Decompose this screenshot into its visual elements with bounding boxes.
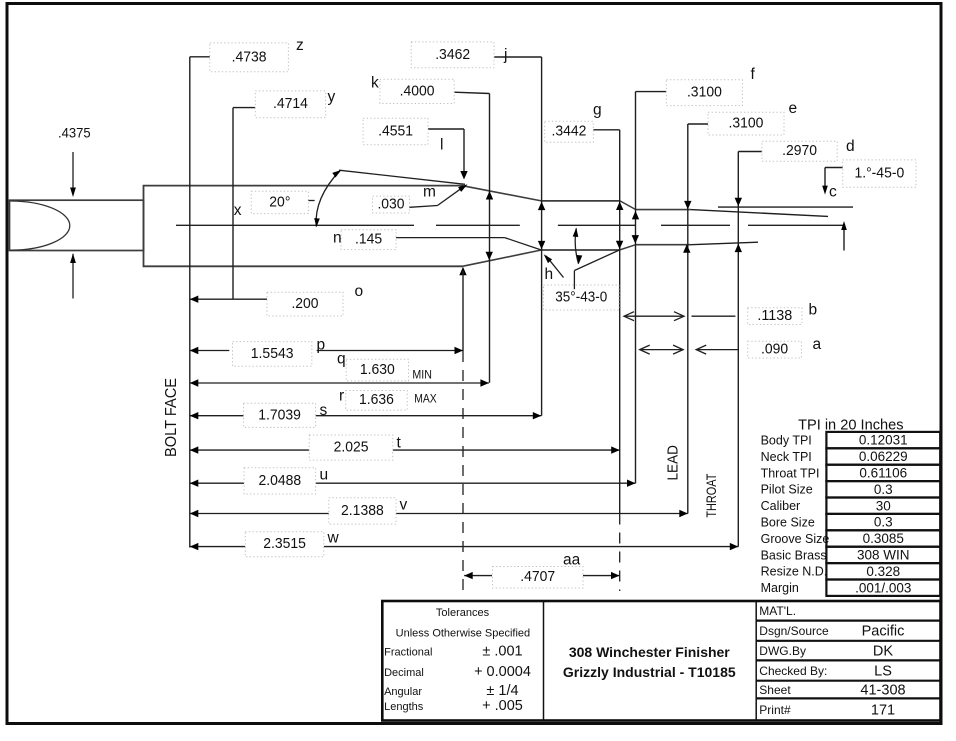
svg-text:± .001: ± .001 [482, 644, 522, 660]
svg-text:Caliber: Caliber [761, 499, 801, 513]
svg-text:Pacific: Pacific [862, 624, 905, 640]
svg-text:Body TPI: Body TPI [761, 434, 812, 448]
svg-text:171: 171 [871, 702, 895, 718]
svg-text:LS: LS [874, 664, 892, 680]
svg-text:x: x [234, 202, 242, 219]
svg-text:.200: .200 [291, 295, 318, 312]
svg-text:DWG.By: DWG.By [759, 644, 806, 658]
svg-text:a: a [813, 336, 822, 353]
svg-text:y: y [328, 89, 336, 106]
svg-text:35°-43-0: 35°-43-0 [555, 289, 607, 305]
svg-text:h: h [545, 266, 554, 283]
svg-text:Decimal: Decimal [384, 667, 424, 679]
svg-text:z: z [296, 37, 304, 54]
svg-text:2.1388: 2.1388 [341, 502, 384, 519]
svg-text:0.3085: 0.3085 [863, 531, 904, 546]
svg-text:MAX: MAX [414, 392, 437, 406]
svg-text:308 Winchester Finisher: 308 Winchester Finisher [569, 644, 730, 660]
svg-text:MIN: MIN [412, 368, 432, 382]
svg-text:t: t [397, 435, 402, 452]
svg-text:0.06229: 0.06229 [859, 449, 908, 464]
svg-text:1.5543: 1.5543 [251, 345, 294, 362]
svg-text:Unless Otherwise Specified: Unless Otherwise Specified [396, 628, 531, 640]
svg-text:0.61106: 0.61106 [859, 466, 907, 481]
svg-text:+ 0.0004: + 0.0004 [474, 664, 531, 680]
svg-text:w: w [327, 530, 340, 547]
svg-text:Bore Size: Bore Size [761, 516, 815, 530]
svg-text:u: u [320, 467, 329, 484]
svg-text:r: r [339, 388, 344, 405]
svg-text:Fractional: Fractional [384, 647, 432, 659]
svg-text:Checked By:: Checked By: [759, 664, 827, 678]
svg-text:.3100: .3100 [729, 115, 764, 132]
svg-text:Grizzly Industrial - T10185: Grizzly Industrial - T10185 [563, 664, 736, 680]
svg-text:l: l [440, 137, 443, 154]
svg-text:Basic Brass: Basic Brass [761, 548, 827, 562]
svg-text:Resize N.D.: Resize N.D. [761, 565, 828, 579]
svg-text:308 WIN: 308 WIN [857, 548, 910, 563]
svg-text:Margin: Margin [761, 581, 799, 595]
svg-text:m: m [423, 184, 436, 201]
svg-text:± 1/4: ± 1/4 [486, 683, 518, 699]
svg-text:.4707: .4707 [520, 568, 555, 585]
svg-text:.1138: .1138 [757, 307, 792, 324]
svg-text:c: c [829, 184, 837, 201]
svg-text:Sheet: Sheet [759, 683, 791, 697]
svg-text:0.3: 0.3 [874, 482, 893, 497]
svg-text:1.630: 1.630 [360, 361, 395, 378]
svg-text:g: g [593, 102, 602, 119]
svg-text:0.12031: 0.12031 [859, 433, 908, 448]
svg-text:Tolerances: Tolerances [436, 607, 490, 619]
svg-text:Groove Size: Groove Size [761, 532, 830, 546]
svg-text:o: o [355, 283, 364, 300]
svg-text:.001/.003: .001/.003 [855, 580, 911, 595]
svg-text:41-308: 41-308 [860, 683, 905, 699]
svg-text:2.0488: 2.0488 [259, 472, 302, 489]
svg-text:.3442: .3442 [552, 123, 587, 140]
svg-text:.3100: .3100 [687, 84, 722, 101]
svg-text:20°: 20° [269, 193, 290, 210]
svg-text:e: e [789, 100, 798, 117]
svg-text:aa: aa [563, 552, 581, 569]
svg-text:q: q [337, 351, 346, 368]
svg-text:d: d [846, 138, 855, 155]
svg-text:THROAT: THROAT [703, 473, 719, 517]
svg-text:Throat TPI: Throat TPI [761, 466, 820, 480]
svg-text:Lengths: Lengths [384, 701, 424, 713]
svg-text:1.7039: 1.7039 [258, 406, 301, 423]
svg-text:f: f [751, 66, 756, 83]
svg-text:1.636: 1.636 [359, 391, 394, 408]
svg-text:k: k [371, 75, 379, 92]
svg-text:.090: .090 [761, 341, 788, 358]
svg-text:30: 30 [876, 498, 891, 513]
svg-text:1.°-45-0: 1.°-45-0 [854, 164, 904, 181]
svg-text:0.328: 0.328 [866, 564, 900, 579]
svg-text:.4551: .4551 [378, 122, 413, 139]
svg-text:DK: DK [873, 644, 893, 660]
svg-text:.145: .145 [355, 231, 382, 248]
svg-text:Print#: Print# [759, 703, 791, 717]
svg-text:.3462: .3462 [435, 46, 470, 63]
svg-text:.4000: .4000 [400, 82, 435, 99]
svg-text:.4714: .4714 [273, 95, 308, 112]
svg-text:s: s [320, 402, 328, 419]
svg-text:j: j [503, 47, 507, 64]
svg-text:n: n [333, 229, 342, 246]
svg-text:.4738: .4738 [232, 48, 267, 65]
svg-text:2.3515: 2.3515 [263, 535, 306, 552]
svg-text:Neck TPI: Neck TPI [761, 450, 812, 464]
svg-text:LEAD: LEAD [665, 445, 682, 481]
svg-text:+ .005: + .005 [482, 698, 523, 714]
svg-text:MAT'L.: MAT'L. [759, 604, 796, 618]
svg-text:v: v [400, 497, 408, 514]
svg-text:p: p [317, 337, 326, 354]
svg-text:0.3: 0.3 [874, 515, 893, 530]
svg-text:b: b [809, 302, 818, 319]
svg-text:2.025: 2.025 [334, 438, 369, 455]
svg-text:Angular: Angular [384, 686, 422, 698]
svg-text:Pilot Size: Pilot Size [761, 483, 813, 497]
svg-text:.4375: .4375 [58, 125, 91, 141]
svg-text:Dsgn/Source: Dsgn/Source [759, 624, 829, 638]
svg-text:.2970: .2970 [782, 142, 817, 159]
svg-text:.030: .030 [377, 195, 404, 212]
svg-text:BOLT FACE: BOLT FACE [163, 378, 180, 457]
